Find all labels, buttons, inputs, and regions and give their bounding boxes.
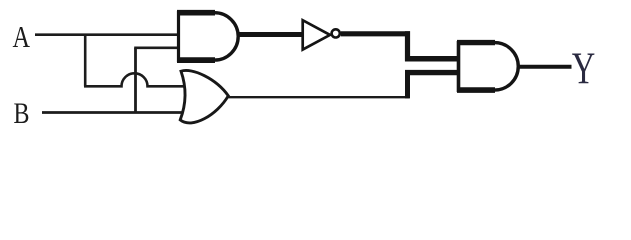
wire B input (42, 111, 188, 114)
wire OR output vertical rise (405, 72, 410, 98)
wire A input (35, 33, 179, 36)
wire AND2 top input stub (405, 56, 459, 62)
wire A branch vertical (84, 35, 87, 87)
wire B branch vertical (134, 48, 137, 113)
wire output Y (519, 65, 572, 69)
wire AND1 output (238, 32, 303, 37)
inverter U2 (303, 20, 340, 49)
wire A branch to OR top input, hop over B branch (84, 73, 188, 86)
svg-text:B: B (14, 97, 30, 130)
wire B branch to AND1 bottom input (134, 46, 179, 49)
wire OR output (228, 96, 409, 98)
wire U2 output horizontal (341, 31, 410, 36)
or-gate U3 (180, 70, 228, 122)
svg-text:A: A (13, 19, 31, 54)
and-gate U4 (457, 41, 518, 92)
wire U2 output vertical drop (405, 31, 410, 61)
svg-text:Y: Y (572, 44, 596, 94)
and-gate U1 (177, 11, 238, 62)
wire AND2 bottom input stub (405, 70, 459, 75)
